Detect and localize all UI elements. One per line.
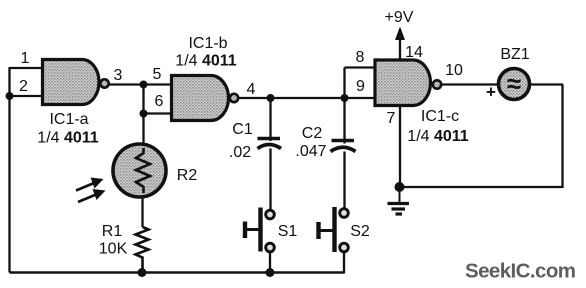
buzzer BZ1 <box>499 69 530 100</box>
svg-text:IC1-c: IC1-c <box>421 108 459 125</box>
wire BZ1 to right vertical <box>530 83 564 85</box>
capacitor C1 <box>258 98 282 211</box>
wire pin5 lead <box>144 83 173 85</box>
op-amp gate IC1-b <box>172 76 239 121</box>
svg-text:1/4 4011: 1/4 4011 <box>37 130 99 147</box>
svg-text:10K: 10K <box>99 241 128 258</box>
svg-text:C2: C2 <box>302 125 323 142</box>
power +9V arrowhead <box>395 27 405 41</box>
wire pin7 drop <box>399 106 401 188</box>
svg-text:7: 7 <box>387 110 396 127</box>
wire pin1 lead <box>10 67 44 69</box>
node junction C1 <box>267 94 275 102</box>
svg-text:1: 1 <box>21 50 30 67</box>
svg-text:9: 9 <box>356 78 365 95</box>
svg-text:SeekIC.com: SeekIC.com <box>465 260 576 283</box>
svg-text:R2: R2 <box>177 167 198 184</box>
wire left vertical drop <box>8 67 10 273</box>
node junction R1 bottom <box>138 268 147 277</box>
svg-text:6: 6 <box>155 93 164 110</box>
svg-text:8: 8 <box>356 49 365 66</box>
svg-text:R1: R1 <box>102 223 123 240</box>
svg-text:BZ1: BZ1 <box>500 46 529 63</box>
op-amp gate IC1-c <box>375 60 441 106</box>
svg-text:+: + <box>486 83 496 102</box>
wire bottom rail <box>10 271 345 273</box>
light arrow upper <box>76 178 104 191</box>
node junction inputs IC1-a <box>6 92 14 100</box>
wire output 10 <box>441 83 498 85</box>
wire ground horizontal <box>400 186 563 188</box>
svg-text:≈: ≈ <box>507 69 521 99</box>
svg-text:1/4 4011: 1/4 4011 <box>175 53 237 70</box>
wire column to R2 <box>142 85 144 147</box>
svg-text:2: 2 <box>19 78 28 95</box>
light arrow lower <box>78 189 106 202</box>
wire pin14 riser <box>399 38 401 60</box>
svg-text:+9V: +9V <box>385 9 414 26</box>
svg-text:C1: C1 <box>232 121 253 138</box>
svg-text:.047: .047 <box>295 143 326 160</box>
svg-text:3: 3 <box>114 67 123 84</box>
node junction pin5 <box>140 81 148 89</box>
resistor R1 <box>136 227 149 272</box>
svg-text:.02: .02 <box>229 144 251 161</box>
wire output 4 bus <box>238 97 375 99</box>
svg-text:5: 5 <box>153 66 162 83</box>
switch S1 <box>245 208 274 273</box>
wire pin2 lead <box>10 95 44 97</box>
svg-text:S2: S2 <box>350 223 370 240</box>
photoresistor R2 <box>113 144 166 197</box>
capacitor C2 <box>331 98 356 210</box>
wire pin6 lead <box>144 112 173 114</box>
svg-text:IC1-b: IC1-b <box>188 35 227 52</box>
svg-text:S1: S1 <box>278 223 298 240</box>
wire pin8 riser <box>343 68 345 99</box>
op-amp gate IC1-a <box>43 60 109 105</box>
switch S2 <box>319 207 349 274</box>
wire right vertical <box>561 85 563 189</box>
wire R2 to R1 <box>141 197 143 227</box>
svg-text:1/4 4011: 1/4 4011 <box>407 128 469 145</box>
node junction S1 bottom <box>266 268 275 277</box>
svg-text:4: 4 <box>247 81 256 98</box>
wire pin8 lead <box>345 66 376 68</box>
svg-text:14: 14 <box>405 44 423 61</box>
node junction pin6 <box>140 110 148 118</box>
wire output 3 <box>109 83 144 85</box>
svg-text:IC1-a: IC1-a <box>49 111 88 128</box>
node junction ground <box>395 182 405 192</box>
node junction C2 pin9 <box>341 94 349 102</box>
svg-text:10: 10 <box>445 62 463 79</box>
ground symbol <box>388 187 410 214</box>
